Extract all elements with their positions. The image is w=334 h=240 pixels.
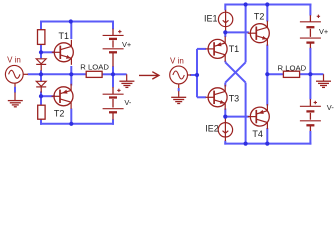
- svg-text:V in: V in: [170, 57, 184, 66]
- svg-text:IE2: IE2: [205, 124, 219, 134]
- svg-text:T2: T2: [254, 12, 265, 22]
- svg-text:T2: T2: [54, 108, 65, 118]
- svg-text:V-: V-: [124, 98, 132, 107]
- svg-text:T1: T1: [229, 44, 240, 54]
- svg-text:R LOAD: R LOAD: [80, 63, 109, 72]
- svg-text:V+: V+: [319, 27, 328, 36]
- svg-text:IE1: IE1: [204, 13, 218, 23]
- svg-text:T1: T1: [59, 31, 70, 41]
- svg-text:T3: T3: [229, 94, 240, 104]
- svg-text:T4: T4: [252, 129, 263, 139]
- svg-text:R LOAD: R LOAD: [278, 63, 307, 72]
- svg-text:V+: V+: [122, 40, 131, 49]
- svg-text:V in: V in: [7, 55, 21, 64]
- svg-text:V-: V-: [327, 103, 334, 112]
